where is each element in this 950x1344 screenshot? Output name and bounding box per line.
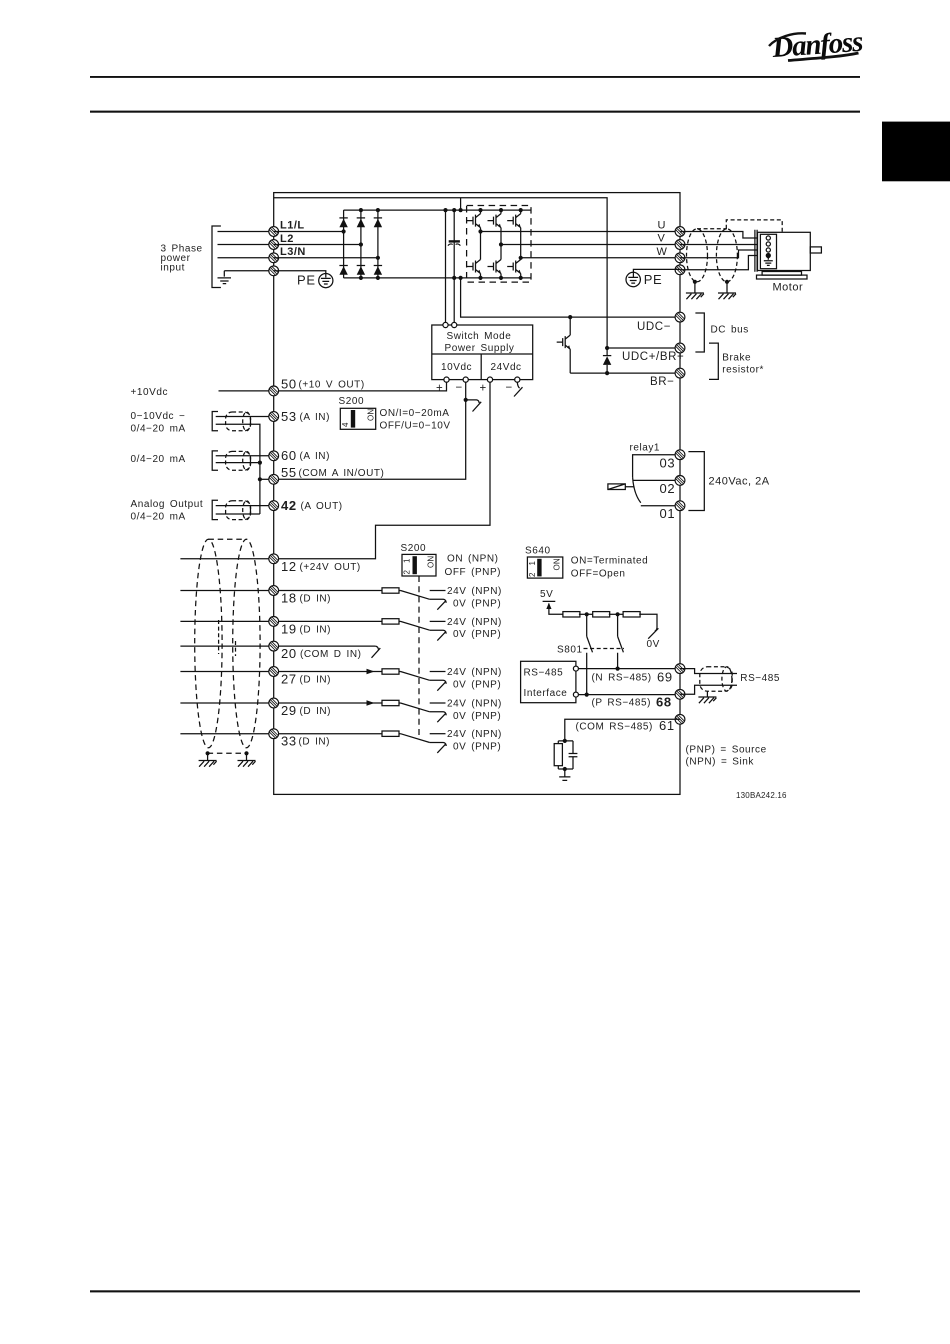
bracket analog 2: [212, 451, 218, 470]
dot brake tap: [568, 315, 572, 319]
label 50 (+10 V OUT): [281, 376, 365, 391]
S801 switch right drop: [617, 614, 619, 668]
SMPS title: [445, 331, 515, 354]
svg-text:DC bus: DC bus: [711, 324, 749, 335]
svg-text:Switch Mode: Switch Mode: [447, 331, 512, 342]
contact 24V row 18: [430, 590, 446, 592]
wire UDC+: [607, 347, 680, 349]
svg-text:ON: ON: [367, 409, 376, 421]
wire relay 02: [633, 479, 680, 481]
RC network: [554, 741, 577, 777]
labels row 27: [447, 667, 502, 690]
svg-text:UDC−: UDC−: [637, 321, 671, 333]
3 Phase power input label: [161, 244, 203, 274]
svg-text:RS−485: RS−485: [740, 673, 780, 684]
Danfoss logo: [769, 26, 864, 64]
svg-text:input: input: [161, 263, 185, 274]
chassis ground shield 2: [238, 761, 256, 767]
label 27 (D IN): [281, 672, 331, 687]
header rule 2: [90, 111, 860, 113]
terminal 03: [675, 450, 685, 460]
svg-text:130BA242.16: 130BA242.16: [736, 791, 787, 800]
resistor R19: [382, 619, 399, 624]
svg-text:12: 12: [281, 559, 297, 574]
IGBT Q5: [488, 260, 502, 274]
junction dots DC rails: [443, 208, 462, 280]
terminal 12: [269, 554, 279, 564]
contact 24V row 19: [430, 620, 446, 622]
IGBT Q2: [488, 214, 502, 228]
wire 33 external: [180, 733, 273, 735]
svg-text:61: 61: [659, 718, 675, 733]
RS-485 shield ground stub: [706, 691, 708, 697]
resistor Rt1: [563, 612, 580, 617]
svg-text:0V (PNP): 0V (PNP): [453, 598, 501, 609]
wire 27 internal: [274, 671, 401, 673]
svg-text:55: 55: [281, 465, 297, 480]
svg-text:ON/I=0−20mA: ON/I=0−20mA: [380, 408, 450, 419]
wire PE to motor: [680, 256, 766, 270]
motor shaft: [810, 247, 821, 253]
svg-text:−: −: [506, 382, 513, 394]
shield ground dots: [206, 751, 249, 755]
wire 53 return: [216, 424, 260, 514]
svg-text:(D IN): (D IN): [299, 737, 331, 748]
labels row 18: [447, 586, 502, 609]
rectifier column 2: [360, 210, 362, 278]
DC rail B: [453, 210, 455, 322]
terminal W: [675, 253, 685, 263]
wire 61: [565, 719, 680, 741]
chassis ground motor 2: [718, 293, 736, 299]
terminal L1: [269, 227, 279, 237]
wire 29 internal: [274, 702, 401, 704]
svg-text:0/4−20 mA: 0/4−20 mA: [131, 511, 186, 522]
terminal 19: [269, 617, 279, 627]
wire 53: [216, 416, 274, 418]
wire relay 03: [633, 455, 680, 478]
diode D2 upper: [357, 218, 365, 227]
motor terminal box: [760, 234, 776, 268]
wire 20 external: [180, 645, 273, 647]
wire W to motor: [680, 250, 766, 258]
DC- bottom bus: [344, 277, 531, 279]
svg-text:60: 60: [281, 448, 297, 463]
junction dots inverter bus: [478, 208, 522, 280]
wire 18 internal: [274, 590, 401, 592]
svg-text:18: 18: [281, 591, 297, 606]
svg-text:relay1: relay1: [630, 442, 661, 453]
svg-text:PE: PE: [297, 272, 316, 287]
terminal 69: [675, 664, 685, 674]
terminal 55: [269, 474, 279, 484]
shield ground stubs: [695, 282, 727, 293]
wire Rt1-Rt2: [579, 613, 594, 615]
blade 0V: [648, 628, 658, 638]
wire 55 link: [260, 478, 274, 480]
svg-text:(A OUT): (A OUT): [301, 501, 343, 512]
svg-text:L3/N: L3/N: [280, 246, 306, 258]
svg-text:4: 4: [341, 422, 350, 427]
chassis ground shield 1: [199, 761, 217, 767]
svg-text:S640: S640: [525, 546, 551, 557]
wire L3 to rectifier: [274, 257, 378, 259]
relay coil K1: [608, 484, 635, 490]
svg-text:2: 2: [403, 570, 412, 575]
svg-text:0/4−20 mA: 0/4−20 mA: [131, 454, 186, 465]
IGBT Q6: [507, 260, 521, 274]
wire BR-: [570, 372, 680, 374]
label 33 (D IN): [281, 734, 330, 749]
svg-text:S200: S200: [401, 543, 427, 554]
svg-text:U: U: [658, 220, 666, 232]
svg-text:0−10Vdc −: 0−10Vdc −: [131, 411, 186, 422]
terminal U: [675, 227, 685, 237]
svg-text:68: 68: [656, 694, 672, 709]
wire 24V+ from SMPS to terminal 12: [274, 382, 490, 559]
svg-text:03: 03: [660, 456, 676, 471]
label 53 (A IN): [281, 409, 330, 424]
DC+ top bus: [344, 209, 531, 211]
motor earth symbol: [764, 256, 773, 266]
junction dots inverter outputs: [478, 229, 522, 260]
svg-text:0V (PNP): 0V (PNP): [453, 711, 501, 722]
IGBT Q3: [507, 214, 521, 228]
svg-text:PE: PE: [644, 272, 663, 287]
wire W1 top internal (UDC+ feed): [274, 198, 607, 348]
label 19 (D IN): [281, 621, 331, 636]
resistor Rt3: [623, 612, 640, 617]
wire 42 return: [216, 513, 260, 515]
terminal 53: [269, 412, 279, 422]
svg-text:01: 01: [660, 506, 676, 521]
S200 switch A53: [339, 396, 376, 429]
inverter leg W vertical: [520, 210, 522, 278]
wire U to motor: [680, 232, 766, 239]
svg-text:(N RS−485): (N RS−485): [592, 673, 652, 684]
PE earth circle right: [626, 269, 680, 286]
hook terminal 20: [372, 646, 381, 658]
dot 60 return: [258, 461, 262, 465]
drive enclosure outline: [274, 193, 680, 795]
svg-text:(COM D IN): (COM D IN): [300, 649, 361, 660]
wire V output: [501, 244, 680, 246]
UDC- feed wire: [461, 278, 680, 317]
svg-text:BR−: BR−: [650, 376, 675, 388]
svg-text:+: +: [436, 383, 443, 395]
wire PE input: [224, 271, 273, 277]
chassis ground RS-485: [698, 697, 716, 703]
bracket 240Vac: [688, 452, 704, 511]
terminal 02: [675, 476, 685, 486]
arrow 29: [367, 700, 375, 706]
resistor R18: [382, 588, 399, 593]
wire 69: [578, 668, 680, 670]
IGBT Q4: [467, 260, 481, 274]
svg-text:Interface: Interface: [524, 688, 568, 699]
wire relay 01: [641, 505, 680, 507]
shield inner dashes: [219, 620, 236, 656]
label (P RS-485) 68: [592, 694, 672, 709]
big shield ellipse A: [195, 539, 222, 748]
svg-text:S801: S801: [557, 644, 583, 655]
svg-text:(P RS−485): (P RS−485): [592, 697, 651, 708]
terminal 60: [269, 451, 279, 461]
polarity signs: [436, 382, 513, 395]
dashed PE jumper to motor: [726, 220, 782, 232]
contact 24V row 29: [430, 702, 446, 704]
S801 blade left: [587, 636, 593, 652]
label 12 (+24V OUT): [281, 559, 361, 574]
label 55 (COM A IN/OUT): [281, 465, 384, 480]
svg-text:0V (PNP): 0V (PNP): [453, 742, 501, 753]
terminal PE left: [269, 266, 279, 276]
earth symbol input: [218, 278, 232, 284]
wire L1 input: [218, 231, 274, 233]
svg-text:24V (NPN): 24V (NPN): [447, 729, 502, 740]
label Brake resistor*: [722, 352, 764, 375]
brake diode D7: [603, 348, 611, 373]
S640 switch: [525, 546, 563, 578]
relay arm: [633, 477, 641, 503]
svg-text:+: +: [480, 383, 487, 395]
diode D3 upper: [374, 218, 382, 227]
svg-text:(A IN): (A IN): [300, 451, 330, 462]
wire L1 to rectifier: [274, 231, 344, 233]
RS-485 Interface box: [521, 661, 576, 702]
svg-text:50: 50: [281, 376, 297, 391]
svg-text:OFF/U=0−10V: OFF/U=0−10V: [380, 421, 451, 432]
contact 24V row 27: [430, 671, 446, 673]
svg-text:(D IN): (D IN): [300, 624, 332, 635]
DC rail A: [445, 210, 447, 322]
arrow 27: [367, 669, 375, 675]
svg-text:0/4−20 mA: 0/4−20 mA: [131, 424, 186, 435]
svg-text:5V: 5V: [540, 589, 553, 600]
contact 0V row 33: [430, 743, 446, 753]
input bracket: [212, 226, 221, 288]
svg-text:ON: ON: [553, 558, 562, 570]
svg-text:(D IN): (D IN): [300, 594, 332, 605]
svg-text:0V: 0V: [647, 639, 660, 650]
wire 19 internal: [274, 620, 401, 622]
bracket analog 1: [212, 412, 218, 431]
S801 blade right: [618, 636, 624, 652]
label 42 (A OUT): [281, 498, 343, 513]
wire 29 external: [180, 702, 273, 704]
svg-text:24Vdc: 24Vdc: [491, 362, 522, 373]
hook switch at 10V-: [466, 400, 482, 412]
svg-text:2: 2: [528, 572, 537, 577]
label 60 (A IN): [281, 448, 330, 463]
svg-text:Motor: Motor: [773, 282, 804, 294]
dots UDC+/BR-: [605, 346, 609, 375]
labels row 33: [447, 729, 502, 752]
dot termination node 2: [616, 612, 620, 616]
wire 19 external: [180, 620, 273, 622]
shield bottom dashed link: [208, 752, 247, 754]
S200 switch digital: [401, 543, 437, 576]
shield ground dots: [693, 280, 729, 284]
PE earth circle symbol: [274, 271, 333, 288]
chassis ground motor 1: [686, 293, 704, 299]
svg-text:20: 20: [281, 646, 297, 661]
terminal 42: [269, 501, 279, 511]
contact 0V row 18: [430, 599, 446, 609]
svg-text:1: 1: [403, 558, 412, 563]
svg-text:69: 69: [657, 669, 673, 684]
labels row 29: [447, 699, 502, 722]
motor cable shield ellipse 2: [716, 229, 737, 282]
wire 18 external: [180, 590, 273, 592]
label 29 (D IN): [281, 703, 331, 718]
wire 33 internal: [274, 733, 401, 735]
motor body: [758, 232, 811, 270]
svg-text:10Vdc: 10Vdc: [441, 362, 472, 373]
svg-text:ON (NPN): ON (NPN): [447, 553, 499, 564]
inverter leg V vertical: [500, 210, 502, 278]
5V supply symbol: [543, 601, 564, 614]
resistor R33: [382, 731, 399, 736]
big shield ellipse B: [233, 539, 260, 748]
DC link capacitor C1: [448, 241, 461, 245]
labels row 19: [447, 617, 502, 640]
svg-text:19: 19: [281, 621, 297, 636]
motor terminals: [766, 236, 770, 258]
terminal PE right: [675, 265, 685, 275]
terminal L3: [269, 253, 279, 263]
RS-485 cable shield: [700, 667, 732, 691]
terminal 29: [269, 698, 279, 708]
terminal 33: [269, 729, 279, 739]
svg-text:−: −: [456, 382, 463, 394]
switch blade 27: [401, 672, 430, 681]
wire to 0V switch: [639, 614, 657, 631]
rectifier column 3: [377, 210, 379, 278]
gland plate: [755, 230, 757, 272]
RS-485 external wires: [680, 669, 737, 695]
terminal 01: [675, 501, 685, 511]
svg-text:(+10 V OUT): (+10 V OUT): [299, 379, 365, 390]
inverter module dashed box: [467, 206, 531, 283]
terminal 18: [269, 586, 279, 596]
wire 27 external: [180, 671, 273, 673]
switch blade 18: [401, 591, 430, 600]
S801 dashed link: [584, 648, 625, 650]
terminal V: [675, 240, 685, 250]
terminal 68: [675, 689, 685, 699]
wire 10V- from SMPS to terminal 55: [274, 382, 466, 479]
Switch Mode Power Supply box: [432, 325, 533, 380]
brake chopper IGBT Q7: [569, 317, 571, 335]
SMPS input pins: [443, 322, 457, 327]
svg-text:(PNP) = Source: (PNP) = Source: [686, 745, 767, 756]
terminal L2: [269, 240, 279, 250]
bracket analog 3: [212, 500, 218, 519]
header rule 1: [90, 76, 860, 78]
label 18 (D IN): [281, 591, 331, 606]
dot wire 69: [616, 667, 620, 671]
svg-text:(NPN) = Sink: (NPN) = Sink: [686, 756, 755, 767]
svg-text:OFF=Open: OFF=Open: [571, 569, 626, 580]
wire Rt2-Rt3: [609, 613, 624, 615]
terminal BR-: [675, 368, 685, 378]
wire 60 return: [216, 462, 260, 464]
svg-text:29: 29: [281, 703, 297, 718]
S200 dashed select line: [418, 576, 420, 739]
RC bottom node: [563, 767, 567, 771]
dot wire 68: [585, 693, 589, 697]
label (N RS-485) 69: [592, 669, 673, 684]
wire L2 to rectifier: [274, 244, 361, 246]
svg-text:S200: S200: [339, 396, 365, 407]
bracket brake resistor: [709, 343, 718, 379]
svg-text:RS−485: RS−485: [524, 668, 564, 679]
svg-text:Power Supply: Power Supply: [445, 343, 515, 354]
dot termination node 1: [585, 612, 589, 616]
wire W output: [521, 257, 680, 259]
terminal 50: [269, 386, 279, 396]
label Analog Output: [131, 499, 204, 523]
svg-text:1: 1: [528, 561, 537, 566]
inverter leg U vertical: [480, 210, 482, 278]
svg-text:W: W: [657, 246, 668, 258]
switch blade 19: [401, 621, 430, 630]
wire 10V+ from SMPS to terminal 50: [274, 382, 447, 391]
svg-text:53: 53: [281, 409, 297, 424]
shield top dashed link: [208, 538, 246, 540]
footer rule: [90, 1290, 860, 1292]
SMPS output pins: [444, 377, 520, 382]
contact 24V row 33: [430, 733, 446, 735]
stub W1 to DC+ bus: [460, 198, 462, 210]
terminal 20: [269, 641, 279, 651]
rectifier column 1: [343, 210, 345, 278]
svg-text:(A IN): (A IN): [300, 412, 330, 423]
svg-text:33: 33: [281, 734, 297, 749]
IGBT Q1: [467, 214, 481, 228]
motor feet: [757, 272, 808, 280]
svg-text:42: 42: [281, 498, 297, 513]
svg-text:ON=Terminated: ON=Terminated: [571, 556, 648, 567]
wire 42: [216, 505, 274, 507]
ground RC: [559, 777, 570, 781]
terminal 61: [675, 714, 685, 724]
svg-text:24V (NPN): 24V (NPN): [447, 617, 502, 628]
svg-text:OFF (PNP): OFF (PNP): [445, 567, 502, 578]
wire L2 input: [218, 244, 274, 246]
dot 55 link: [258, 477, 262, 481]
diode D4 lower: [339, 266, 347, 275]
wire 12 external: [180, 558, 273, 560]
svg-text:L1/L: L1/L: [280, 220, 305, 232]
svg-text:02: 02: [660, 481, 676, 496]
contact 0V row 19: [430, 630, 446, 640]
svg-text:0V (PNP): 0V (PNP): [453, 679, 501, 690]
svg-text:24V (NPN): 24V (NPN): [447, 699, 502, 710]
svg-text:+10Vdc: +10Vdc: [131, 387, 169, 398]
wire 68: [578, 694, 680, 696]
shield oval 3: [226, 501, 251, 520]
terminal 27: [269, 667, 279, 677]
shield oval 1: [226, 412, 251, 431]
switch blade 29: [401, 703, 430, 712]
wire 60: [216, 455, 274, 457]
resistor R27: [382, 669, 399, 674]
diode D6 lower: [374, 266, 382, 275]
terminal UDC+/BR+: [675, 343, 685, 353]
svg-text:Analog Output: Analog Output: [131, 499, 204, 510]
